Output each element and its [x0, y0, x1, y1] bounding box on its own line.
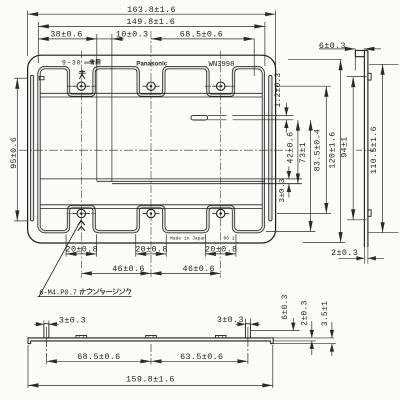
- bottom view right reference extensions: [273, 337, 334, 339]
- bottom view right tab: [245, 324, 250, 338]
- dim 110.5: [382, 64, 384, 232]
- interior slot column lines: [96, 34, 98, 181]
- svg-text:68.5±0.6: 68.5±0.6: [180, 30, 223, 40]
- bottom view strip: [31, 337, 271, 339]
- dim 120: [340, 60, 342, 243]
- svg-text:42±0.6: 42±0.6: [287, 132, 296, 164]
- side view screw bosses: [368, 73, 371, 80]
- svg-text:6±0.3: 6±0.3: [319, 41, 346, 51]
- svg-text:08 1: 08 1: [223, 236, 234, 242]
- svg-text:20±0.8: 20±0.8: [66, 244, 99, 254]
- svg-text:1.2±0.3: 1.2±0.3: [275, 73, 283, 108]
- svg-text:159.8±1.6: 159.8±1.6: [126, 375, 175, 385]
- section boundary lines upper: [41, 92, 263, 94]
- plate vertical centerline: [150, 31, 152, 278]
- hole row centerline marks + extensions: [67, 85, 96, 87]
- svg-text:20±0.8: 20±0.8: [135, 244, 168, 254]
- omote kanji mark: [81, 70, 83, 74]
- bottom view left tab: [44, 324, 49, 338]
- svg-text:63.5±0.6: 63.5±0.6: [180, 352, 223, 362]
- svg-text:163.8±1.6: 163.8±1.6: [127, 5, 176, 15]
- dim 163.8: [28, 13, 276, 15]
- plate horizontal centerline: [19, 149, 291, 151]
- svg-text:2±0.3: 2±0.3: [331, 248, 358, 258]
- svg-text:149.8±1.6: 149.8±1.6: [126, 17, 175, 27]
- svg-text:68.5±0.6: 68.5±0.6: [77, 352, 120, 362]
- dim 83.5: [325, 86, 327, 213]
- dim 10 (outside arrow): [97, 38, 112, 40]
- hole vertical centerlines (dash-dot): [80, 51, 82, 278]
- slot edge extension lines to 1.2 dim: [208, 115, 227, 117]
- svg-text:3±0.3: 3±0.3: [279, 178, 287, 202]
- long interior rail lines: [41, 178, 303, 180]
- svg-text:Made in Japan: Made in Japan: [170, 236, 206, 242]
- bottom view screw bosses x3: [76, 335, 87, 338]
- dim 149.8: [38, 25, 265, 27]
- dim 68.5 bottom: [45, 327, 47, 364]
- small datum mark near left rim: [39, 76, 44, 79]
- screw holes (6x M4 countersink): [73, 82, 90, 90]
- dim 110.5 reference lines: [369, 63, 399, 65]
- svg-text:94±1: 94±1: [341, 136, 350, 157]
- svg-text:46±0.6: 46±0.6: [112, 264, 145, 274]
- svg-text:95±0.6: 95±0.6: [10, 137, 19, 169]
- dim 3 (rails, outside arrows): [288, 167, 290, 180]
- center horizontal slot (stadium): [191, 115, 208, 120]
- dim 68.5: [151, 38, 254, 40]
- svg-text:46±0.6: 46±0.6: [183, 264, 216, 274]
- svg-text:110.5±1.6: 110.5±1.6: [370, 126, 379, 174]
- dim 38: [38, 38, 97, 40]
- right side tab (stadium): [269, 75, 272, 221]
- svg-text:3.5±1: 3.5±1: [321, 301, 330, 327]
- left side tab (stadium): [30, 75, 33, 221]
- dim 94: [352, 77, 354, 220]
- svg-text:WN3998: WN3998: [209, 61, 235, 69]
- svg-text:73±1: 73±1: [299, 142, 308, 163]
- dim 63.5 bottom: [247, 327, 249, 364]
- section boundary lines lower: [41, 204, 263, 206]
- bottom view right flange: [271, 338, 274, 344]
- svg-text:120±1.6: 120±1.6: [328, 131, 337, 168]
- dim 163.8 extension lines: [27, 11, 29, 57]
- dim 73: [310, 120, 312, 231]
- side view strip: [363, 50, 365, 247]
- svg-text:38±0.6: 38±0.6: [50, 30, 83, 40]
- svg-text:9~30: 9~30: [62, 59, 82, 66]
- dim 94 reference lines: [347, 76, 367, 78]
- svg-text:Panasonic: Panasonic: [136, 61, 167, 68]
- callout leader 6-M4 countersink: [39, 220, 81, 297]
- dim 20 x3 extension lines: [65, 234, 67, 256]
- svg-text:83.5±0.4: 83.5±0.4: [314, 129, 323, 172]
- front view outer outline: [28, 55, 276, 243]
- side view bottom extension lines: [363, 247, 365, 264]
- dim 120 reference lines: [288, 59, 342, 61]
- dim 20 x3: [66, 253, 97, 255]
- stamped rim band (double contour with gray core): [39, 68, 263, 232]
- dim 46 x2: [81, 272, 151, 274]
- svg-text:mm: mm: [84, 61, 90, 66]
- svg-text:3±0.3: 3±0.3: [59, 316, 86, 326]
- svg-text:2±0.3: 2±0.3: [301, 300, 310, 326]
- dim 95: [16, 78, 18, 221]
- bottom view left flange: [28, 338, 31, 344]
- dim 95 reference ticks: [14, 77, 28, 79]
- svg-text:20±0.8: 20±0.8: [205, 244, 238, 254]
- dim 159.8: [27, 345, 29, 388]
- svg-text:6±0.3: 6±0.3: [281, 294, 290, 320]
- dim 149.8 extension lines: [37, 22, 39, 63]
- dim 68.5 right extension: [253, 39, 255, 76]
- svg-text:10±0.3: 10±0.3: [116, 30, 149, 40]
- dim 42: [297, 120, 299, 184]
- dim 73 bottom reference: [266, 231, 316, 233]
